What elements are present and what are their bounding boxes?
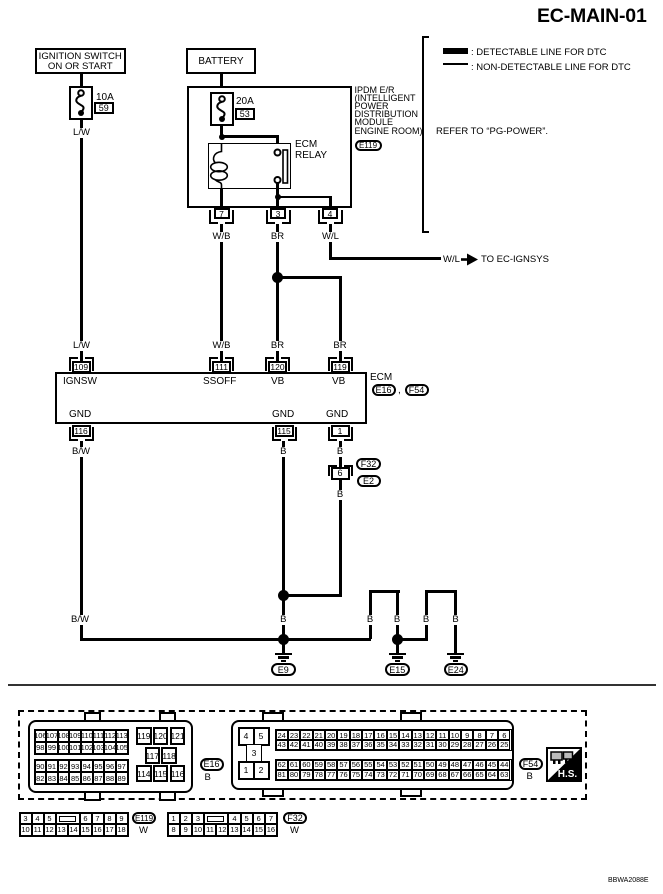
svg-text:H.S.: H.S. bbox=[558, 769, 578, 780]
